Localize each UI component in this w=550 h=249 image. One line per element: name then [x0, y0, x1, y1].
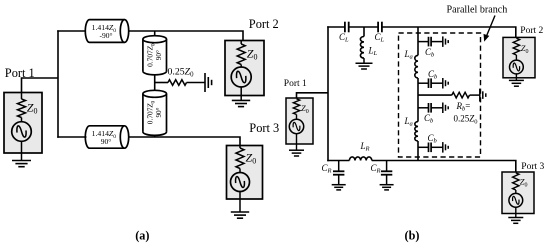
transmission line 1.414Z0 -90deg (a) [85, 20, 89, 43]
svg-text:90°: 90° [155, 107, 163, 117]
label 0.707Z0 90deg (TL4) [146, 100, 164, 124]
svg-text:Cb: Cb [428, 133, 438, 145]
wire Cb4 branch (b) [418, 146, 428, 148]
wire bottom branch seg2 (b) [372, 161, 516, 173]
capacitor CR left (b) [333, 170, 344, 172]
wire Cb1 branch (b) [418, 41, 428, 43]
wire bottom branch left (a) [57, 136, 86, 138]
ground CR right (b) [380, 184, 394, 186]
wire CR1 to ground (b) [338, 175, 340, 185]
wire Cb3 to ground (b) [431, 107, 443, 109]
wire box2 top (a) [240, 41, 242, 45]
resistor Z0 port3 (b) [513, 173, 519, 190]
wire res to src port1 (a) [21, 118, 23, 122]
wire to isolation resistor (a) [155, 82, 168, 84]
wire Cb1 to ground (b) [431, 41, 443, 43]
resistor Z0 port1 (a) [18, 99, 26, 118]
port 3 box (b) [502, 172, 534, 214]
svg-text:Port 3: Port 3 [521, 162, 544, 172]
wire top branch seg3 (b) [382, 27, 516, 37]
svg-text:CL: CL [339, 32, 349, 44]
wire src to box bottom port1 (a) [21, 141, 23, 153]
ground port1 (a) [12, 160, 31, 162]
svg-text:La: La [404, 116, 413, 128]
inductor La lower (b) [415, 122, 418, 141]
wire bottom branch seg1 (b) [327, 160, 349, 162]
port 2 box (b) [503, 37, 535, 77]
svg-text:LR: LR [360, 141, 370, 153]
wire box3 to ground (a) [239, 199, 241, 212]
svg-text:(b): (b) [405, 229, 420, 243]
resistor 0.25Z0 (a) [168, 80, 187, 86]
wire parallel branch vertical line bottom (b) [417, 141, 419, 161]
wire res to src port3 (a) [239, 169, 241, 173]
wire res to src port2 (b) [515, 55, 517, 60]
inductor La upper (b) [415, 55, 418, 78]
ground CR left (b) [332, 184, 346, 186]
wire top branch seg1 (b) [327, 26, 344, 28]
capacitor CR right (b) [381, 170, 392, 172]
parallel branch dashed box [399, 33, 481, 157]
port 3 box (a) [227, 146, 263, 200]
wire src to box bottom port3 (a) [239, 192, 241, 200]
wire top branch left (a) [57, 30, 86, 32]
transmission line 0.707Z0 90deg upper (a) [143, 71, 167, 75]
wire port1 stub (b) [297, 93, 329, 98]
svg-text:-90°: -90° [100, 31, 113, 40]
svg-text:Port 2: Port 2 [249, 17, 279, 31]
resistor Z0 port2 (a) [237, 44, 245, 65]
wire box2 to ground (a) [240, 96, 242, 101]
wire parallel branch vertical line lower (b) [417, 78, 419, 122]
svg-text:Port 2: Port 2 [520, 26, 543, 36]
wire Cb4 to ground (b) [431, 146, 443, 148]
wire bottom branch right (a) [128, 137, 240, 146]
transmission line 1.414Z0 90deg (a) [85, 126, 89, 148]
resistor Z0 port1 (b) [293, 99, 299, 115]
source port3 (b) [509, 193, 523, 207]
wire res to src port1 (b) [296, 115, 298, 120]
ground Cb4 (b) [442, 142, 444, 153]
ground LL (b) [356, 62, 373, 64]
svg-text:Port 1: Port 1 [284, 79, 307, 89]
wire top to TL3 (a) [154, 31, 156, 37]
inductor LL (b) [360, 37, 364, 59]
svg-text:0.25Z0: 0.25Z0 [167, 66, 194, 78]
svg-text:Cb: Cb [428, 69, 438, 81]
ground port1 (b) [289, 149, 304, 151]
source port2 (b) [510, 60, 524, 74]
ground Cb1 (b) [442, 36, 444, 47]
ground Cb3 (b) [442, 103, 444, 114]
ground isolation resistor (a) [204, 73, 206, 92]
wire Cb3 branch (b) [418, 107, 428, 109]
capacitor Cb3 (b) [428, 103, 430, 113]
source port3 (a) [231, 173, 250, 192]
svg-text:CR: CR [322, 163, 332, 175]
wire CR2 stub (b) [386, 161, 388, 172]
wire Cb2 to ground (b) [431, 82, 443, 84]
svg-text:90°: 90° [101, 137, 112, 146]
resistor Z0 port3 (a) [236, 148, 244, 169]
ground Cb2 (b) [442, 78, 444, 89]
port 1 box (b) [286, 98, 313, 144]
capacitor Cb2 (b) [428, 78, 430, 88]
svg-text:La: La [404, 49, 413, 61]
capacitor CL right (b) [377, 22, 379, 33]
svg-text:Cb: Cb [425, 47, 435, 59]
wire LL stub (b) [363, 27, 365, 37]
wire port1 to bus (a) [22, 78, 59, 93]
source port2 (a) [231, 67, 251, 87]
svg-text:CR: CR [371, 163, 381, 175]
wire TL3 to TL4 junction (a) [154, 74, 156, 92]
wire res to src port2 (a) [240, 65, 242, 68]
resistor Z0 port2 (b) [513, 38, 519, 55]
wire Cb2 branch (b) [418, 82, 428, 84]
ground port3 (a) [231, 211, 249, 213]
wire input bus (a) [57, 30, 59, 138]
wire box1 to ground (a) [21, 153, 23, 161]
svg-text:0.25Z0: 0.25Z0 [454, 114, 478, 126]
transmission line 0.707Z0 90deg lower (a) [143, 132, 167, 136]
wire res to src port3 (b) [515, 190, 517, 194]
svg-text:(a): (a) [135, 229, 149, 243]
wire box1 to ground (b) [296, 144, 298, 150]
arrow to parallel branch [486, 16, 495, 37]
capacitor Cb1 (b) [428, 37, 430, 47]
wire parallel branch vertical line (b) [417, 27, 419, 55]
wire box1 top (a) [21, 93, 23, 100]
wire src to box bottom port2 (a) [240, 87, 242, 96]
capacitor CL left (b) [344, 22, 346, 33]
wire box3 top (a) [239, 146, 241, 149]
wire src to box bottom port3 (b) [515, 207, 517, 213]
wire main input line (b) [327, 26, 329, 161]
wire box3 to ground (b) [515, 214, 517, 218]
wire CR1 stub (b) [338, 161, 340, 172]
wire Rb to ground (b) [470, 94, 480, 96]
resistor Rb (b) [452, 92, 470, 98]
label 0.707Z0 90deg (TL3) [146, 43, 164, 67]
wire resistor to ground (a) [187, 82, 205, 84]
svg-text:Cb: Cb [424, 113, 434, 125]
wire top branch right (a) [128, 31, 243, 41]
port 2 box (a) [225, 41, 264, 96]
wire LL to ground (b) [363, 58, 365, 63]
svg-text:Port 3: Port 3 [249, 121, 279, 135]
svg-text:Rb=: Rb= [456, 101, 471, 113]
wire CR2 to ground (b) [386, 175, 388, 185]
wire src to box bottom port1 (b) [296, 134, 298, 144]
wire TL4 to bottom wire (a) [154, 135, 156, 138]
wire Rb branch (b) [418, 94, 452, 96]
source port1 (a) [12, 122, 32, 142]
wire box2 to ground (b) [515, 78, 517, 80]
wire src to box bottom port2 (b) [515, 74, 517, 78]
ground port2 (b) [509, 79, 524, 81]
ground port2 (a) [232, 99, 250, 101]
svg-text:CL: CL [375, 32, 385, 44]
capacitor Cb4 (b) [428, 143, 430, 153]
source port1 (b) [289, 119, 303, 133]
inductor LR (b) [349, 157, 371, 161]
port 1 box (a) [4, 93, 42, 154]
ground Rb (b) [479, 89, 481, 102]
svg-text:LL: LL [368, 46, 378, 58]
svg-text:Parallel branch: Parallel branch [447, 4, 508, 15]
ground port3 (b) [508, 217, 523, 219]
wire top branch seg2 (b) [349, 26, 378, 28]
svg-text:90°: 90° [155, 50, 163, 60]
